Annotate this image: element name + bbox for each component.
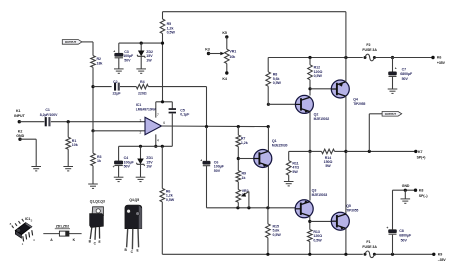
node OUTPUT tag right xyxy=(382,112,402,117)
svg-text:50V: 50V xyxy=(124,58,131,62)
resistor R7 xyxy=(236,135,248,147)
svg-text:C2: C2 xyxy=(113,80,118,84)
resistor R6 xyxy=(160,188,175,202)
svg-text:C1: C1 xyxy=(45,108,50,112)
wire +rail to R8 xyxy=(267,58,269,72)
wire +35V rail xyxy=(268,56,394,59)
wire R15 to -rail xyxy=(267,238,269,255)
svg-text:4: 4 xyxy=(157,138,159,142)
fuse F2 xyxy=(362,43,377,61)
svg-text:+: + xyxy=(113,165,115,169)
svg-text:50V: 50V xyxy=(401,238,408,242)
transistor Q2 MJE15032 xyxy=(295,95,329,121)
svg-text:F2: F2 xyxy=(366,43,370,47)
connector K3 wiper xyxy=(205,48,224,56)
op-amp IC1 LME49710NA xyxy=(136,103,166,142)
svg-text:K8: K8 xyxy=(419,188,424,192)
capacitor C5 xyxy=(169,108,191,116)
svg-text:1k: 1k xyxy=(97,159,101,163)
svg-text:0,1µF: 0,1µF xyxy=(180,113,190,117)
svg-text:+35V: +35V xyxy=(437,61,446,65)
resistor R5 xyxy=(160,19,175,35)
ground ZD2 xyxy=(136,69,146,73)
wire to R6 xyxy=(161,146,163,188)
wire to R11 xyxy=(289,151,310,160)
capacitor C7 xyxy=(389,58,414,90)
connector K5 xyxy=(222,31,228,49)
svg-text:5W: 5W xyxy=(292,170,298,174)
svg-text:Q3: Q3 xyxy=(312,189,317,193)
svg-text:IC1: IC1 xyxy=(25,217,30,221)
wire Q3 emitter, Q5 base xyxy=(308,216,331,230)
ground R3 xyxy=(88,184,98,188)
svg-text:F1: F1 xyxy=(366,240,370,244)
wire R7 to R9 xyxy=(237,147,240,171)
svg-text:INPUT: INPUT xyxy=(14,114,25,118)
svg-text:E: E xyxy=(99,240,101,244)
svg-text:FUSE 3A: FUSE 3A xyxy=(362,245,377,249)
svg-text:Q5: Q5 xyxy=(346,204,351,208)
ground R1 xyxy=(63,167,73,171)
wire output to K7 xyxy=(346,150,416,153)
zener ZD2 xyxy=(137,43,153,69)
svg-text:E: E xyxy=(137,249,139,253)
svg-text:TIP3055: TIP3055 xyxy=(346,208,358,212)
svg-text:R3: R3 xyxy=(97,155,102,159)
svg-text:6: 6 xyxy=(163,121,165,125)
svg-text:K3: K3 xyxy=(205,48,210,52)
svg-text:ZD1,ZD2: ZD1,ZD2 xyxy=(56,225,70,229)
svg-text:OUTPUT: OUTPUT xyxy=(65,40,77,44)
wire output vertical xyxy=(345,12,347,215)
wire R1 to ground xyxy=(67,149,69,166)
svg-text:220Ω: 220Ω xyxy=(138,92,147,96)
resistor R9 xyxy=(236,171,246,182)
resistor R13 xyxy=(308,230,323,243)
svg-text:0,5W: 0,5W xyxy=(273,81,282,85)
transistor Q3 MJE15033 xyxy=(295,189,327,218)
wire R3 to ground xyxy=(92,166,94,184)
wire Q1 base xyxy=(238,158,254,160)
transistor package Q1 Q2 Q3 TO-220 xyxy=(89,199,105,245)
capacitor C2 xyxy=(112,80,121,96)
resistor R1 xyxy=(66,137,78,149)
svg-text:C8: C8 xyxy=(399,229,404,233)
wire R5 vertical xyxy=(162,12,164,102)
ground speaker xyxy=(401,199,411,203)
wire C1 to opamp pin3 xyxy=(51,120,145,123)
wire R11 to ground xyxy=(288,175,290,181)
svg-text:Q2: Q2 xyxy=(314,113,319,117)
wire to OUTPUT tag xyxy=(369,114,382,152)
svg-text:8,2µF/100V: 8,2µF/100V xyxy=(40,113,58,117)
svg-text:0,5W: 0,5W xyxy=(166,198,175,202)
wire node to R3 xyxy=(92,131,94,153)
svg-text:+: + xyxy=(113,49,115,53)
svg-text:7: 7 xyxy=(157,113,159,117)
wire Q1 collector-emitter xyxy=(267,103,270,208)
svg-text:50V: 50V xyxy=(124,165,131,169)
svg-text:1k: 1k xyxy=(242,176,246,180)
svg-text:SP(+): SP(+) xyxy=(417,156,426,160)
wire VR2 bottom xyxy=(237,202,239,208)
wire -35V rail xyxy=(162,253,362,256)
wire R8 to Q2 base xyxy=(268,86,295,104)
connector K8 SP- xyxy=(414,188,428,198)
capacitor C6 xyxy=(200,127,224,208)
resistor R12 xyxy=(308,65,323,80)
capacitor C1 xyxy=(40,108,58,126)
ground C7 xyxy=(388,89,398,93)
wire to R7 xyxy=(237,127,239,136)
wire bias line xyxy=(207,206,296,209)
wire R6 to -rail xyxy=(161,202,163,254)
wire zener rail +15V xyxy=(119,42,164,45)
connector K6 +35V xyxy=(431,56,445,65)
svg-text:FUSE 3A: FUSE 3A xyxy=(362,48,377,52)
connector K7 SP+ xyxy=(414,150,425,160)
node OUTPUT tag left xyxy=(62,40,82,45)
trimmer VR2 xyxy=(236,189,249,208)
svg-text:R2: R2 xyxy=(97,57,102,61)
svg-text:LME49710NA: LME49710NA xyxy=(136,107,157,111)
wire R12 to Q2, Q4 base xyxy=(308,80,331,96)
svg-text:R1: R1 xyxy=(72,139,77,143)
resistor R8 xyxy=(266,72,282,86)
svg-text:GND: GND xyxy=(402,184,410,188)
svg-text:6800µF: 6800µF xyxy=(399,234,412,238)
svg-text:Q4,Q5: Q4,Q5 xyxy=(129,198,139,202)
potentiometer VR1 xyxy=(225,49,237,63)
resistor R2 xyxy=(91,56,103,68)
wire to R12 xyxy=(309,58,311,65)
fuse F1 xyxy=(362,240,377,258)
ground ZD1 xyxy=(136,177,146,181)
wire R2 to node xyxy=(91,67,94,132)
svg-text:K9: K9 xyxy=(438,252,443,256)
svg-text:5W: 5W xyxy=(325,164,331,168)
svg-text:50V: 50V xyxy=(214,169,221,173)
resistor R14 xyxy=(322,149,335,168)
wire to R15 xyxy=(267,208,269,224)
svg-text:18k: 18k xyxy=(97,62,103,66)
svg-text:GND: GND xyxy=(16,134,24,138)
transistor package Q4 Q5 TO-247 xyxy=(124,198,141,254)
svg-text:MJE15032: MJE15032 xyxy=(314,117,330,121)
svg-text:22µF: 22µF xyxy=(112,92,121,96)
svg-text:MJE15030: MJE15030 xyxy=(272,144,288,148)
connector K4 xyxy=(222,64,228,81)
wire to R1 xyxy=(67,122,69,138)
svg-text:1W: 1W xyxy=(146,58,152,62)
zener ZD1 xyxy=(136,146,153,177)
ground R11 xyxy=(284,182,294,186)
svg-text:50V: 50V xyxy=(402,77,409,81)
resistor R4 xyxy=(136,80,148,96)
svg-text:TIP2955: TIP2955 xyxy=(353,102,365,106)
wire R14 left xyxy=(310,150,322,152)
wire to Q3 xyxy=(309,151,311,200)
wire R4 to output node xyxy=(148,87,206,127)
ground C3 xyxy=(114,69,124,73)
resistor R15 xyxy=(266,224,282,238)
svg-text:6800µF: 6800µF xyxy=(400,72,413,76)
capacitor C4 xyxy=(113,146,135,177)
ground C4 xyxy=(114,177,124,181)
svg-text:–35V: –35V xyxy=(438,258,447,262)
transistor Q5 TIP3055 xyxy=(331,204,358,230)
wire K2 to ground xyxy=(20,139,36,166)
diode package ZD1 ZD2 xyxy=(43,225,81,242)
wire R9 to VR2 xyxy=(237,182,239,190)
wire Q2 emitter xyxy=(308,111,311,153)
svg-text:K6: K6 xyxy=(437,56,442,60)
svg-text:10k: 10k xyxy=(229,55,235,59)
transistor Q1 MJE15030 xyxy=(254,139,288,167)
svg-text:MJE15033: MJE15033 xyxy=(312,193,328,197)
wire R14 right xyxy=(335,150,348,153)
wire Q5 to -rail xyxy=(345,228,347,254)
svg-text:+: + xyxy=(200,158,202,162)
connector K1 INPUT xyxy=(14,109,25,123)
wire top +rail xyxy=(163,11,346,13)
svg-text:+: + xyxy=(386,226,388,230)
resistor R3 xyxy=(91,153,102,166)
capacitor C8 xyxy=(386,190,412,254)
svg-text:0,5W: 0,5W xyxy=(313,238,322,242)
wire K1 to C1 xyxy=(19,121,44,123)
svg-text:Q4: Q4 xyxy=(353,98,358,102)
svg-text:OUTPUT: OUTPUT xyxy=(385,112,397,116)
svg-text:0,5W: 0,5W xyxy=(273,233,282,237)
wire GND node xyxy=(393,184,416,192)
capacitor C3 xyxy=(113,43,134,69)
svg-text:K4: K4 xyxy=(222,77,227,81)
wire -15V rail xyxy=(119,145,173,148)
wire op-amp supply pins xyxy=(154,100,172,148)
svg-text:+: + xyxy=(395,66,397,70)
svg-text:VR1: VR1 xyxy=(229,49,236,53)
wire C2 to R4 xyxy=(120,86,136,88)
transistor Q4 TIP2955 xyxy=(331,80,365,106)
wire R13 to -rail xyxy=(309,242,311,255)
svg-text:1W: 1W xyxy=(146,165,152,169)
wire to ground xyxy=(404,190,406,199)
svg-text:3: 3 xyxy=(139,119,141,123)
wire op-amp output xyxy=(162,125,270,128)
svg-text:Q1: Q1 xyxy=(272,139,277,143)
svg-text:Q1,Q2,Q3: Q1,Q2,Q3 xyxy=(90,199,105,203)
connector K9 -35V xyxy=(432,252,446,262)
svg-text:SP(–): SP(–) xyxy=(419,194,428,198)
wire to C2 xyxy=(93,86,112,88)
IC package IC1 DIP-8 xyxy=(10,217,35,246)
svg-text:K7: K7 xyxy=(418,150,423,154)
wire F2 to K6 xyxy=(375,57,433,59)
svg-text:K1: K1 xyxy=(16,109,21,113)
svg-text:2: 2 xyxy=(139,131,141,135)
wire F1 to K9 xyxy=(375,253,434,256)
wire C5 arm xyxy=(171,102,173,147)
svg-text:0,5W: 0,5W xyxy=(167,31,176,35)
svg-text:R4: R4 xyxy=(140,80,145,84)
resistor R11 xyxy=(286,161,299,176)
connector K2 GND xyxy=(16,130,24,141)
svg-text:K5: K5 xyxy=(222,31,227,35)
wire output tag to R2 xyxy=(82,42,93,56)
svg-text:0,5W: 0,5W xyxy=(314,74,323,78)
ground K2 xyxy=(31,167,41,171)
svg-text:10k: 10k xyxy=(72,143,78,147)
svg-text:1,2k: 1,2k xyxy=(241,141,248,145)
svg-text:C7: C7 xyxy=(402,68,407,72)
wire inverting input xyxy=(93,130,145,132)
